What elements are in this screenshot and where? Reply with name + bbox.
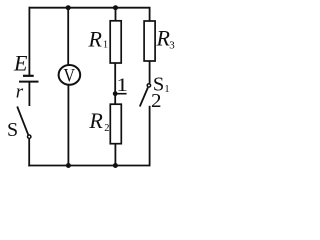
wire voltmeter upper: [67, 8, 69, 66]
svg-text:3: 3: [169, 40, 175, 52]
wire right upper (top bus to R3): [149, 8, 151, 21]
junction dot node 1: [113, 91, 118, 96]
junction dot bottom-middle: [113, 163, 118, 168]
battery E plate long: [19, 81, 39, 83]
svg-text:1: 1: [103, 40, 108, 51]
svg-text:R: R: [88, 108, 103, 133]
battery E plate short: [23, 75, 34, 77]
svg-text:1: 1: [164, 84, 169, 95]
wire voltmeter lower: [67, 85, 69, 165]
svg-text:2: 2: [151, 90, 162, 112]
svg-text:E: E: [13, 50, 28, 75]
switch S1 pivot circle: [147, 84, 150, 87]
wire R2 to bottom bus: [114, 144, 116, 166]
wire middle upper (top bus to R1): [115, 8, 117, 21]
wire left lower (S to bottom bus): [28, 139, 30, 166]
wire R1 to node 1: [114, 63, 116, 94]
voltmeter V circle: [59, 65, 81, 85]
wire left mid (battery to switch S): [28, 82, 30, 106]
resistor R2 box: [110, 104, 121, 144]
switch S1 blade: [140, 88, 148, 107]
resistor R1 box: [110, 21, 121, 63]
junction dot top-middle: [113, 5, 118, 10]
junction dot top-voltmeter: [66, 5, 71, 10]
svg-text:2: 2: [104, 123, 109, 134]
svg-text:1: 1: [116, 75, 128, 96]
wire contact 2 to bottom bus: [149, 106, 151, 166]
switch S pivot circle: [28, 135, 31, 138]
node 1 stub tick: [115, 93, 126, 95]
junction dot bottom-voltmeter: [66, 163, 71, 168]
resistor R3 box: [144, 21, 155, 61]
svg-text:S: S: [7, 119, 18, 141]
switch S blade: [17, 107, 28, 135]
wire top bus: [29, 7, 149, 9]
wire bottom bus: [29, 165, 149, 167]
svg-text:V: V: [64, 66, 76, 86]
wire node 1 to R2: [114, 94, 116, 105]
wire left upper (battery top lead): [28, 8, 30, 76]
wire R3 to S1: [149, 61, 151, 83]
svg-text:R: R: [88, 26, 103, 51]
svg-text:r: r: [16, 82, 24, 103]
